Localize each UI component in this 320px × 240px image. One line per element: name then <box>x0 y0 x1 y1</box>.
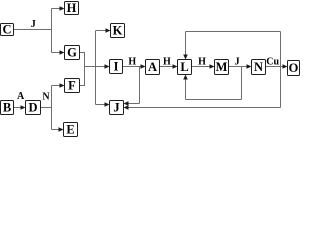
box J <box>110 101 124 115</box>
box F <box>65 79 80 93</box>
wire vertical from K junction down to J <box>95 31 97 105</box>
wire vertical split for H and G <box>51 9 53 53</box>
box B <box>1 101 14 115</box>
wire B to D with arrowhead <box>14 107 22 109</box>
wire A to L with arrowhead <box>160 66 174 68</box>
wire into E with arrowhead <box>52 129 60 131</box>
wire into J right upper with arrowhead <box>129 103 140 105</box>
wire M to N with arrowhead <box>229 66 248 68</box>
wire into G with arrowhead <box>52 52 61 54</box>
wire G output <box>80 52 85 54</box>
svg-text:F: F <box>68 79 76 93</box>
box L <box>178 60 192 75</box>
svg-text:J: J <box>113 101 119 115</box>
wire D to split junction <box>41 107 52 109</box>
svg-text:E: E <box>66 123 74 137</box>
svg-text:N: N <box>254 60 263 74</box>
box H <box>65 1 79 15</box>
wire F output <box>80 85 85 87</box>
box A <box>146 60 160 75</box>
svg-text:H: H <box>128 57 136 68</box>
box I <box>110 60 123 74</box>
svg-text:M: M <box>216 60 228 74</box>
svg-text:J: J <box>235 57 240 68</box>
wire into H with arrowhead <box>52 8 61 10</box>
wire outer loop down from N-O line <box>280 67 282 108</box>
box K <box>111 24 125 38</box>
wire outer loop into J right lower with arrowhead <box>129 107 281 109</box>
wire inner feedback up into L bottom with arrowhead <box>185 79 187 100</box>
box N <box>252 60 266 75</box>
wire branch down from I-A line <box>139 67 141 104</box>
svg-text:J: J <box>31 19 36 30</box>
wire vertical split for F and E <box>51 86 53 130</box>
svg-text:G: G <box>67 46 77 60</box>
box O <box>288 61 300 76</box>
svg-text:Cu: Cu <box>266 57 279 68</box>
svg-text:C: C <box>2 23 11 37</box>
wire down into L top with arrowhead <box>185 32 187 56</box>
wire L to M with arrowhead <box>192 66 211 68</box>
wire into K with arrowhead <box>96 30 107 32</box>
box G <box>65 46 80 60</box>
wire into I with arrowhead <box>85 66 106 68</box>
svg-text:H: H <box>198 57 206 68</box>
svg-text:N: N <box>42 92 50 103</box>
svg-text:O: O <box>289 61 299 75</box>
wire into F with arrowhead <box>52 85 61 87</box>
box C <box>1 23 14 37</box>
box E <box>64 123 78 137</box>
box M <box>215 60 229 75</box>
svg-text:H: H <box>67 1 77 15</box>
svg-text:I: I <box>114 60 119 74</box>
wire C to split junction <box>14 29 52 31</box>
svg-text:A: A <box>148 60 157 74</box>
wire outer loop up from N-O line <box>280 32 282 67</box>
svg-text:A: A <box>17 91 25 102</box>
svg-text:K: K <box>113 24 123 38</box>
svg-text:B: B <box>3 101 11 115</box>
box D <box>26 101 41 115</box>
wire inner feedback horizontal <box>186 99 242 101</box>
svg-text:H: H <box>163 57 171 68</box>
wire vertical merging G and F <box>84 52 86 86</box>
wire I to A with arrowhead <box>123 66 142 68</box>
svg-text:D: D <box>28 101 37 115</box>
wire inner feedback down from M-N line <box>241 67 243 100</box>
wire top loop horizontal <box>186 31 281 33</box>
wire N to O with arrowhead <box>266 66 284 68</box>
svg-text:L: L <box>180 60 188 74</box>
wire into J left with arrowhead <box>96 104 106 106</box>
